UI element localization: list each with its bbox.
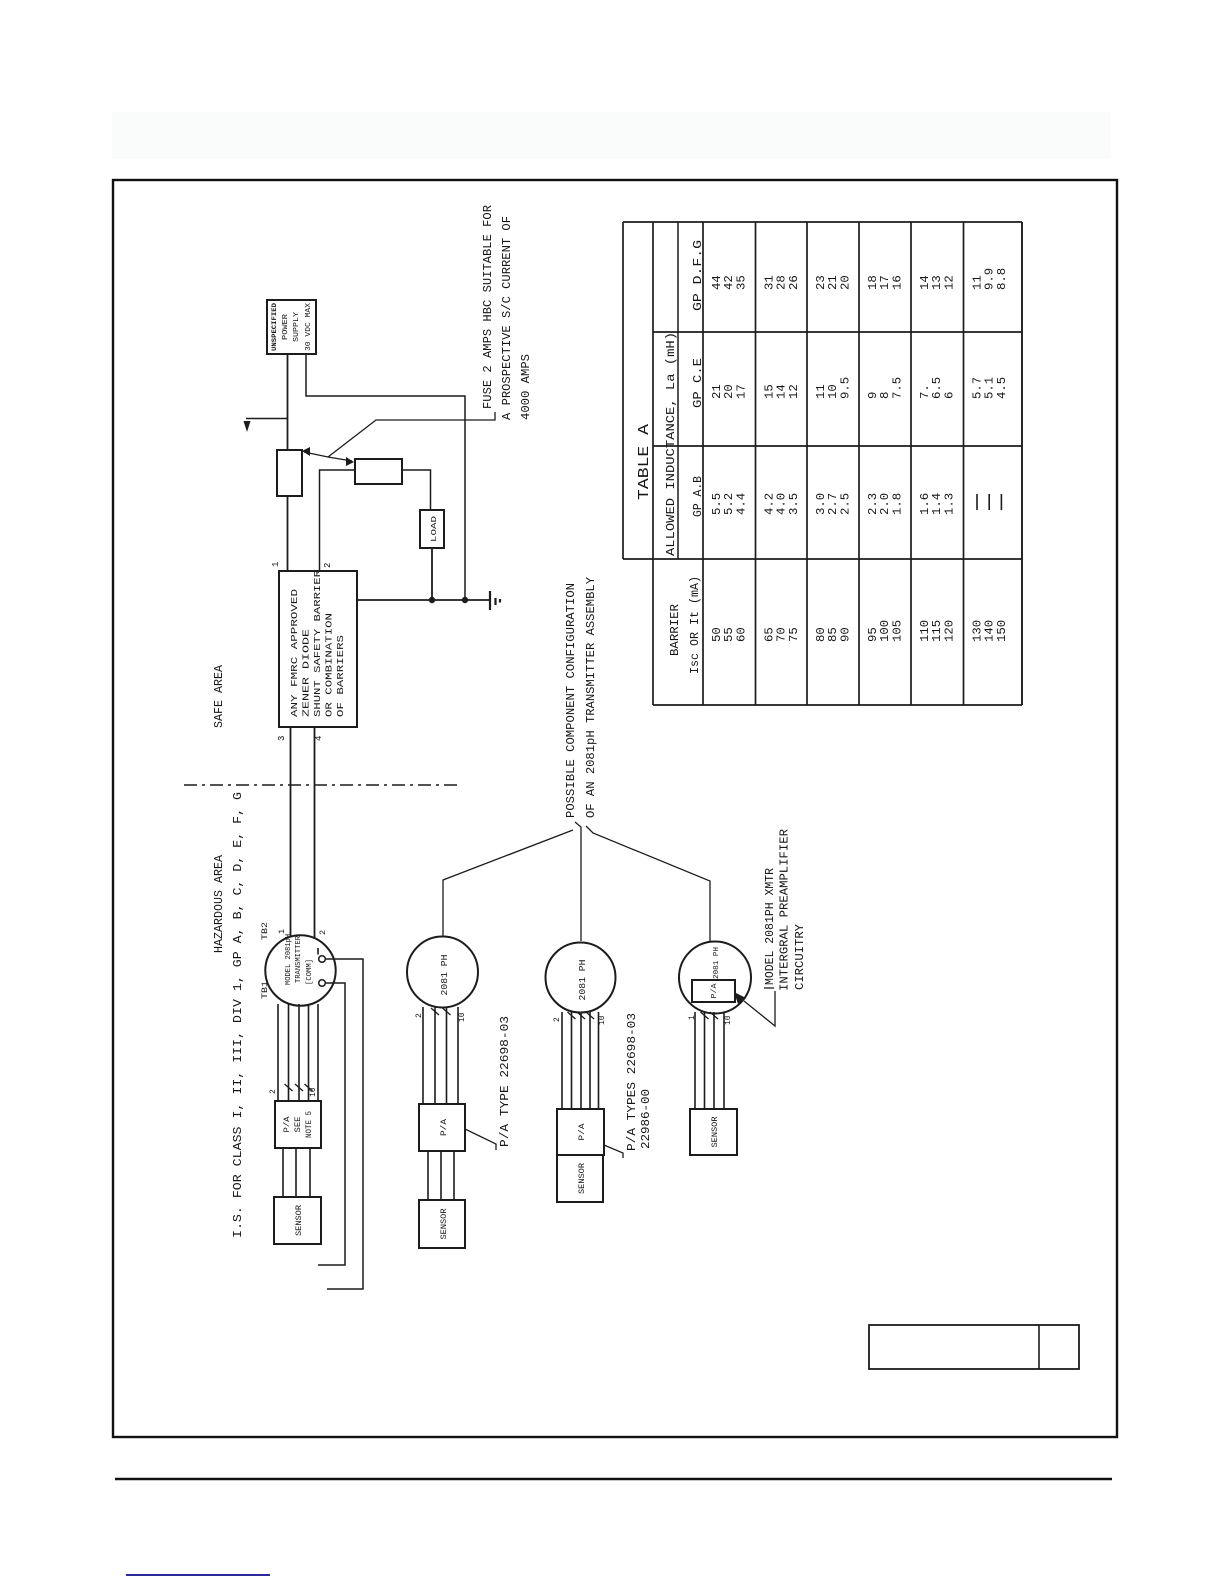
preamp P/A box chain3 [557, 1109, 604, 1155]
sensor box chain3 [557, 1155, 603, 1202]
fuse annotation leader [304, 452, 352, 461]
svg-text:2: 2 [415, 1013, 424, 1018]
svg-text:6: 6 [943, 391, 956, 399]
svg-text:SENSOR: SENSOR [440, 1208, 449, 1239]
chain2 cable wires [422, 1007, 424, 1104]
svg-text:95: 95 [867, 627, 880, 642]
svg-text:SUPPLY: SUPPLY [293, 311, 301, 342]
wire: comm terminal 2 loop [318, 983, 345, 1265]
svg-text:2: 2 [269, 1089, 278, 1094]
svg-text:10: 10 [598, 1015, 607, 1025]
junction dot supply return [463, 598, 467, 602]
preamp P/A box chain2 [419, 1104, 465, 1151]
power supply box [267, 300, 316, 354]
svg-text:5.5: 5.5 [711, 493, 724, 515]
chain1 cable wires [277, 1004, 279, 1101]
svg-text:9: 9 [867, 391, 880, 399]
svg-text:2.5: 2.5 [839, 493, 852, 515]
svg-text:31: 31 [764, 275, 777, 290]
svg-text:20: 20 [839, 275, 852, 290]
svg-text:1: 1 [271, 562, 281, 567]
arrow stub on supply wire [246, 418, 287, 420]
svg-text:SENSOR: SENSOR [711, 1116, 720, 1147]
terminal circle plus [319, 980, 326, 987]
svg-text:POWER: POWER [282, 313, 290, 340]
wire: barrier ground drop [357, 599, 489, 601]
svg-text:4000 AMPS: 4000 AMPS [519, 354, 533, 420]
svg-text:30 VDC MAX: 30 VDC MAX [305, 302, 313, 351]
svg-text:12: 12 [788, 384, 801, 399]
svg-text:105: 105 [891, 620, 904, 642]
svg-text:P/A: P/A [577, 1123, 587, 1141]
svg-text:2: 2 [318, 930, 328, 935]
svg-text:5.1: 5.1 [984, 377, 997, 399]
svg-text:115: 115 [931, 620, 944, 642]
chain1 wire ticks [285, 1084, 293, 1091]
svg-text:GP D.F.G: GP D.F.G [691, 240, 705, 311]
svg-text:1: 1 [688, 1015, 697, 1020]
svg-text:GP A.B: GP A.B [691, 476, 705, 517]
footer rule [115, 1478, 1112, 1481]
svg-text:85: 85 [827, 627, 840, 642]
ground symbol [489, 591, 491, 610]
svg-text:MODEL 2081PH XMTR: MODEL 2081PH XMTR [763, 868, 777, 985]
svg-text:15: 15 [764, 384, 777, 399]
svg-text:TABLE A: TABLE A [637, 424, 653, 500]
svg-text:6.5: 6.5 [931, 377, 944, 399]
svg-text:2081 PH: 2081 PH [578, 960, 588, 1001]
minus sign [317, 948, 319, 955]
svg-text:TB1: TB1 [260, 981, 270, 999]
svg-text:11: 11 [972, 275, 985, 290]
svg-text:14: 14 [919, 275, 932, 290]
svg-text:2: 2 [323, 563, 333, 568]
svg-text:150: 150 [996, 620, 1009, 642]
chain2 P/A leader [465, 1129, 496, 1150]
load box [420, 510, 444, 548]
svg-text:SHUNT SAFETY BARRIER: SHUNT SAFETY BARRIER [313, 569, 323, 717]
svg-text:8: 8 [879, 391, 892, 399]
table grid [622, 222, 624, 559]
svg-text:50: 50 [711, 627, 724, 642]
svg-text:UNSPECIFIED: UNSPECIFIED [271, 303, 278, 351]
svg-text:1.6: 1.6 [919, 493, 932, 515]
svg-text:4.4: 4.4 [735, 493, 748, 515]
svg-text:100: 100 [879, 620, 892, 642]
svg-text:OF AN 2081pH TRANSMITTER ASSEM: OF AN 2081pH TRANSMITTER ASSEMBLY [584, 577, 598, 818]
svg-text:110: 110 [919, 620, 932, 642]
svg-text:5.2: 5.2 [723, 493, 736, 515]
wire: comm terminal 1 loop [325, 959, 363, 1289]
svg-text:P/A: P/A [711, 983, 719, 999]
svg-text:1.4: 1.4 [931, 493, 944, 515]
svg-text:SAFE AREA: SAFE AREA [212, 664, 226, 728]
svg-text:BARRIER: BARRIER [668, 604, 682, 656]
svg-text:7.: 7. [919, 384, 932, 399]
svg-text:5.7: 5.7 [972, 377, 985, 399]
scan artifact band [112, 112, 1110, 159]
drawing border frame [113, 180, 1117, 1437]
svg-text:17: 17 [879, 275, 892, 290]
svg-text:I.S. FOR CLASS I, II, III, DIV: I.S. FOR CLASS I, II, III, DIV 1, GP A, … [231, 792, 245, 1238]
wire: barrier pin 4 to transmitter TB2-2 [314, 727, 316, 939]
svg-text:130: 130 [972, 620, 985, 642]
svg-text:12: 12 [943, 275, 956, 290]
svg-text:ZENER DIODE: ZENER DIODE [302, 629, 312, 717]
svg-text:A PROSPECTIVE S/C CURRENT OF: A PROSPECTIVE S/C CURRENT OF [500, 216, 514, 420]
integral preamp box [692, 980, 735, 1002]
svg-text:ALLOWED INDUCTANCE, La (mH): ALLOWED INDUCTANCE, La (mH) [664, 332, 678, 556]
svg-text:[COMM]: [COMM] [306, 959, 314, 985]
svg-text:SENSOR: SENSOR [295, 1205, 304, 1236]
svg-text:2.7: 2.7 [827, 493, 840, 515]
svg-text:4.2: 4.2 [764, 493, 777, 515]
svg-text:INTERGRAL PREAMPLIFIER: INTERGRAL PREAMPLIFIER [778, 829, 792, 991]
transmitter circle chain4 [679, 942, 751, 1014]
svg-text:16: 16 [891, 275, 904, 290]
wire: power supply return [306, 354, 465, 600]
svg-text:3.0: 3.0 [815, 493, 828, 515]
svg-text:80: 80 [815, 627, 828, 642]
svg-text:4.0: 4.0 [776, 493, 789, 515]
transmitter U2 circle [265, 935, 335, 1005]
svg-text:POSSIBLE COMPONENT CONFIGURATI: POSSIBLE COMPONENT CONFIGURATION [564, 583, 578, 818]
barrier U1 - zener diode shunt safety barrier [279, 571, 357, 727]
svg-text:HAZARDOUS AREA: HAZARDOUS AREA [212, 854, 226, 953]
chain3 cable wires [561, 1012, 563, 1109]
svg-text:35: 35 [735, 275, 748, 290]
svg-text:18: 18 [867, 275, 880, 290]
svg-text:13: 13 [931, 275, 944, 290]
svg-text:28: 28 [776, 275, 789, 290]
svg-text:21: 21 [711, 384, 724, 399]
svg-text:21: 21 [827, 275, 840, 290]
resistor R1 [355, 459, 402, 484]
svg-text:140: 140 [984, 620, 997, 642]
title block [869, 1325, 1079, 1369]
hazardous/safe area divider [184, 784, 457, 786]
svg-text:10: 10 [827, 384, 840, 399]
svg-text:26: 26 [788, 275, 801, 290]
fan leader to chain4 [586, 826, 710, 942]
chain4 cable wires [694, 1012, 696, 1109]
wire: load to ground bus [431, 548, 433, 600]
chain2 sensor wires [427, 1151, 429, 1200]
svg-text:14: 14 [776, 384, 789, 399]
svg-text:23: 23 [815, 275, 828, 290]
svg-text:3: 3 [277, 736, 287, 741]
svg-text:10: 10 [724, 1015, 733, 1025]
svg-text:10: 10 [458, 1012, 467, 1022]
sensor box chain4 [690, 1109, 737, 1155]
svg-text:1: 1 [277, 929, 287, 934]
svg-text:55: 55 [723, 627, 736, 642]
svg-text:42: 42 [723, 275, 736, 290]
svg-text:9.9: 9.9 [984, 268, 997, 290]
fuse F1 [277, 450, 302, 496]
svg-text:2.3: 2.3 [867, 493, 880, 515]
footer link line [126, 1574, 270, 1576]
svg-text:ANY FMRC APPROVED: ANY FMRC APPROVED [290, 589, 300, 717]
svg-text:MODEL 2081pH: MODEL 2081pH [285, 934, 293, 985]
wire: resistor to load [402, 470, 431, 510]
terminal circle minus [319, 956, 326, 963]
transmitter circle chain2 [407, 937, 478, 1008]
chain4 wire ticks [701, 1012, 709, 1019]
svg-text:3.5: 3.5 [788, 493, 801, 515]
sensor box chain1 [274, 1197, 321, 1244]
chain3 wire ticks [568, 1012, 576, 1019]
svg-text:65: 65 [764, 627, 777, 642]
svg-text:LOAD: LOAD [431, 515, 439, 542]
wire: barrier pin 3 to transmitter TB2-1 [290, 727, 292, 936]
svg-text:8.8: 8.8 [996, 268, 1009, 290]
svg-text:4.5: 4.5 [996, 377, 1009, 399]
svg-text:NOTE 5: NOTE 5 [305, 1111, 314, 1138]
svg-text:TRANSMITTER: TRANSMITTER [295, 936, 303, 983]
integral preamp leader [734, 992, 746, 1004]
svg-text:P/A: P/A [283, 1116, 292, 1132]
svg-text:44: 44 [711, 275, 724, 290]
svg-text:P/A: P/A [439, 1118, 449, 1136]
fan leader to chain2 [443, 830, 573, 937]
svg-text:1.8: 1.8 [891, 493, 904, 515]
svg-text:22986-00: 22986-00 [639, 1089, 653, 1149]
preamp P/A box chain1 [275, 1101, 321, 1148]
svg-text:SENSOR: SENSOR [578, 1163, 587, 1194]
chain1 sensor wires [282, 1148, 284, 1197]
svg-text:4: 4 [314, 736, 324, 741]
svg-text:OF BARRIERS: OF BARRIERS [336, 635, 346, 717]
svg-text:17: 17 [735, 384, 748, 399]
svg-text:7.5: 7.5 [891, 377, 904, 399]
svg-text:CIRCUITRY: CIRCUITRY [793, 924, 807, 990]
wire: barrier pin 2 to resistor [320, 470, 356, 571]
svg-text:Isc OR It (mA): Isc OR It (mA) [688, 576, 702, 674]
svg-text:OR COMBINATION: OR COMBINATION [325, 613, 335, 717]
wire: barrier pin 1 to fuse [287, 496, 289, 571]
chain3 P/A leader [604, 1145, 623, 1158]
svg-text:60: 60 [735, 627, 748, 642]
svg-text:9.5: 9.5 [839, 377, 852, 399]
svg-text:120: 120 [943, 620, 956, 642]
svg-text:P/A TYPES 22698-03: P/A TYPES 22698-03 [625, 1013, 639, 1151]
svg-text:TB2: TB2 [260, 922, 270, 940]
svg-text:90: 90 [839, 627, 852, 642]
wire: fuse to power supply [287, 354, 289, 450]
svg-text:2: 2 [553, 1017, 562, 1022]
svg-text:P/A TYPE 22698-03: P/A TYPE 22698-03 [498, 1016, 512, 1147]
svg-text:2081 PH: 2081 PH [440, 955, 450, 996]
svg-text:2.0: 2.0 [879, 493, 892, 515]
chain2 wire ticks [431, 1008, 439, 1015]
svg-text:1.3: 1.3 [943, 493, 956, 515]
svg-text:2081 PH: 2081 PH [713, 947, 721, 979]
sensor box chain2 [419, 1200, 465, 1248]
svg-text:11: 11 [815, 384, 828, 399]
svg-text:70: 70 [776, 627, 789, 642]
fan leader to chain3 [575, 822, 581, 941]
svg-text:GP C.E: GP C.E [691, 358, 705, 408]
svg-text:SEE: SEE [294, 1116, 303, 1132]
svg-text:FUSE 2 AMPS HBC SUITABLE FOR: FUSE 2 AMPS HBC SUITABLE FOR [481, 205, 495, 409]
transmitter circle chain3 [546, 943, 616, 1013]
junction dot load [430, 598, 434, 602]
svg-text:20: 20 [723, 384, 736, 399]
svg-text:75: 75 [788, 627, 801, 642]
